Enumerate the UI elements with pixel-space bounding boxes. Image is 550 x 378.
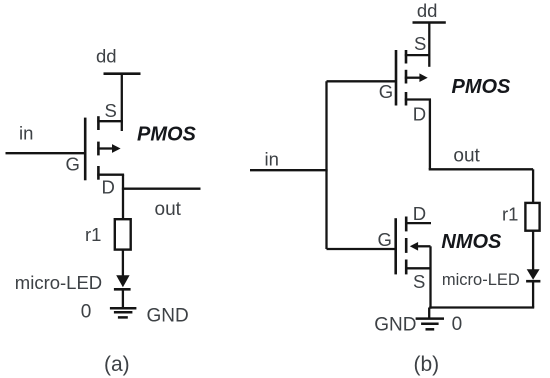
svg-text:PMOS: PMOS xyxy=(137,123,197,145)
svg-text:dd: dd xyxy=(417,0,438,21)
svg-text:D: D xyxy=(102,177,115,198)
wire out (b) xyxy=(429,168,533,170)
svg-text:in: in xyxy=(265,149,279,170)
svg-text:out: out xyxy=(453,146,480,167)
svg-text:(a): (a) xyxy=(104,353,130,376)
channel segment bottom Q1 xyxy=(97,166,100,180)
wire PMOS gate (b) xyxy=(327,80,397,82)
transistor Q2 PMOS (b) xyxy=(396,50,431,106)
wire out to resistor (b) xyxy=(532,169,534,203)
svg-text:r1: r1 xyxy=(85,224,101,245)
channel segment middle Q3 xyxy=(405,238,408,253)
wire NMOS gate (b) xyxy=(327,248,396,250)
channel segment middle Q1 xyxy=(97,142,100,156)
svg-text:r1: r1 xyxy=(502,204,518,225)
gate plate Q2 xyxy=(395,50,398,106)
wire LED to ground (a) xyxy=(122,289,124,308)
LED D2 (b) xyxy=(526,269,540,281)
ground symbol (b) xyxy=(416,319,444,330)
wire ground stub (b) xyxy=(428,308,430,319)
drain stub Q3 xyxy=(405,222,431,224)
svg-text:S: S xyxy=(414,33,426,54)
wire gate bus (b) xyxy=(325,81,327,249)
power rail VDD (a) xyxy=(104,72,141,75)
channel segment top Q3 xyxy=(405,217,408,232)
svg-text:dd: dd xyxy=(96,46,117,67)
source stub Q1 xyxy=(97,120,123,122)
wire input in (a) xyxy=(6,152,85,154)
svg-text:0: 0 xyxy=(452,314,463,335)
ground symbol (a) xyxy=(110,308,136,317)
svg-text:0: 0 xyxy=(81,302,92,323)
resistor r1 (a) xyxy=(115,219,131,249)
svg-text:PMOS: PMOS xyxy=(452,76,512,98)
svg-text:out: out xyxy=(155,199,182,220)
wire resistor to LED (b) xyxy=(532,231,534,270)
wire out (a) xyxy=(122,188,201,190)
resistor r1 (b) xyxy=(525,203,539,231)
drain stub Q1 xyxy=(97,174,124,176)
LED cathode bar D2 xyxy=(526,280,540,283)
wire ground rail (b) xyxy=(429,306,534,308)
svg-text:S: S xyxy=(105,100,117,121)
transistor Q3 NMOS (b) xyxy=(396,217,431,275)
bulk arrow Q1 xyxy=(97,147,113,149)
wire source to VDD (a) xyxy=(121,74,123,131)
source stub Q3 xyxy=(405,267,431,269)
LED cathode bar D1 xyxy=(114,288,131,291)
source stub Q2 xyxy=(405,54,430,56)
bulk arrow Q2 xyxy=(405,77,420,79)
power rail VDD (b) xyxy=(413,21,446,24)
channel segment top Q2 xyxy=(405,50,408,64)
transistor Q1 PMOS (a) xyxy=(85,116,124,180)
wire input in (b) xyxy=(250,169,328,171)
LED triangle D2 xyxy=(527,269,540,280)
wire PMOS drain to out node (b) xyxy=(429,100,431,170)
wire source to VDD (b) xyxy=(428,23,430,67)
channel segment bottom Q2 xyxy=(405,92,408,106)
svg-text:GND: GND xyxy=(374,315,416,336)
bulk arrow Q3 xyxy=(410,242,418,251)
svg-text:S: S xyxy=(413,271,425,292)
svg-text:G: G xyxy=(66,154,80,175)
gate plate Q3 xyxy=(394,218,397,274)
svg-text:D: D xyxy=(413,104,426,125)
svg-text:micro-LED: micro-LED xyxy=(442,271,520,289)
LED triangle D1 xyxy=(116,275,129,287)
svg-text:G: G xyxy=(378,229,392,250)
svg-text:(b): (b) xyxy=(414,353,440,376)
channel segment middle Q2 xyxy=(405,70,408,84)
wire resistor to LED (a) xyxy=(122,250,124,277)
drain stub Q2 xyxy=(405,98,431,100)
wire LED to ground rail (b) xyxy=(532,281,534,307)
LED D1 (a) xyxy=(114,275,131,289)
gate plate Q1 xyxy=(84,118,87,181)
svg-text:NMOS: NMOS xyxy=(441,231,502,253)
svg-text:micro-LED: micro-LED xyxy=(15,272,102,293)
svg-text:in: in xyxy=(19,123,33,144)
channel segment bottom Q3 xyxy=(405,260,408,275)
svg-text:D: D xyxy=(413,203,426,224)
wire drain (a) xyxy=(122,175,124,220)
svg-text:G: G xyxy=(379,81,393,102)
channel segment top Q1 xyxy=(97,116,100,130)
wire NMOS source (b) xyxy=(429,246,431,308)
svg-text:GND: GND xyxy=(147,305,189,326)
